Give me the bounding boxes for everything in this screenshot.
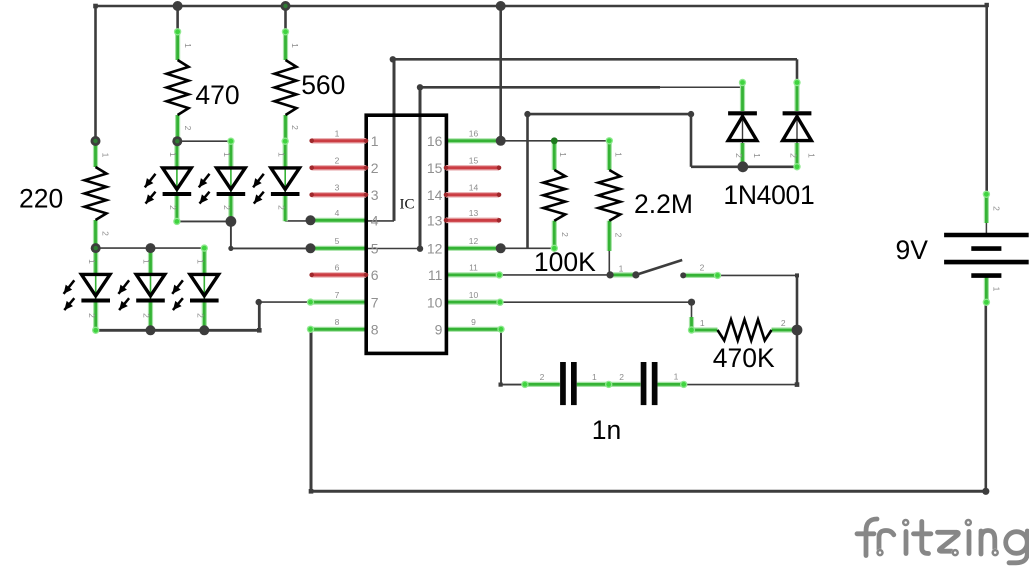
- svg-text:1: 1: [100, 153, 110, 158]
- svg-text:1N4001: 1N4001: [723, 180, 814, 210]
- svg-text:2: 2: [290, 125, 300, 130]
- svg-text:1: 1: [290, 43, 300, 48]
- svg-text:2: 2: [614, 233, 624, 238]
- svg-text:2: 2: [222, 205, 232, 210]
- svg-text:3: 3: [371, 187, 379, 203]
- svg-text:9: 9: [435, 322, 443, 338]
- svg-text:2: 2: [276, 205, 286, 210]
- svg-text:IC: IC: [400, 197, 415, 213]
- svg-text:2: 2: [991, 206, 1001, 211]
- svg-text:1: 1: [592, 372, 597, 382]
- svg-text:8: 8: [335, 317, 340, 327]
- svg-text:3: 3: [335, 183, 340, 193]
- svg-text:7: 7: [335, 290, 340, 300]
- svg-text:1: 1: [142, 259, 152, 264]
- svg-text:1: 1: [700, 318, 705, 328]
- svg-text:1: 1: [991, 287, 1001, 292]
- svg-text:1: 1: [674, 371, 679, 381]
- svg-text:2: 2: [168, 205, 178, 210]
- svg-text:16: 16: [427, 133, 443, 149]
- svg-text:10: 10: [427, 294, 443, 310]
- svg-text:2: 2: [142, 313, 152, 318]
- svg-text:9V: 9V: [896, 235, 929, 265]
- svg-text:1: 1: [558, 152, 568, 157]
- svg-text:1: 1: [87, 259, 97, 264]
- svg-text:2: 2: [619, 372, 624, 382]
- svg-text:2: 2: [335, 156, 340, 166]
- svg-text:4: 4: [335, 208, 340, 218]
- svg-text:100K: 100K: [534, 247, 596, 277]
- svg-text:560: 560: [301, 70, 345, 100]
- svg-text:1: 1: [196, 259, 206, 264]
- svg-text:470: 470: [195, 80, 239, 110]
- svg-text:1: 1: [807, 153, 817, 158]
- svg-text:2: 2: [540, 372, 545, 382]
- svg-text:1: 1: [335, 129, 340, 139]
- svg-text:16: 16: [469, 129, 479, 139]
- svg-text:2: 2: [734, 153, 744, 158]
- svg-text:1: 1: [371, 133, 379, 149]
- svg-text:8: 8: [371, 322, 379, 338]
- svg-text:12: 12: [427, 241, 443, 257]
- svg-text:2: 2: [781, 318, 786, 328]
- svg-text:14: 14: [427, 187, 443, 203]
- svg-text:7: 7: [371, 294, 379, 310]
- svg-text:1: 1: [276, 152, 286, 157]
- svg-text:2: 2: [100, 231, 110, 236]
- svg-text:2: 2: [700, 263, 705, 273]
- svg-text:2: 2: [183, 126, 193, 131]
- svg-text:15: 15: [427, 160, 443, 176]
- svg-text:10: 10: [469, 290, 479, 300]
- svg-text:1: 1: [168, 152, 178, 157]
- svg-text:5: 5: [335, 236, 340, 246]
- svg-text:11: 11: [428, 267, 443, 283]
- svg-text:6: 6: [335, 263, 340, 273]
- svg-text:13: 13: [469, 208, 479, 218]
- svg-text:12: 12: [469, 236, 479, 246]
- svg-text:2: 2: [87, 313, 97, 318]
- svg-text:1: 1: [614, 152, 624, 157]
- svg-text:2: 2: [371, 160, 379, 176]
- svg-text:11: 11: [469, 263, 478, 273]
- svg-text:1: 1: [222, 152, 232, 157]
- svg-text:9: 9: [471, 317, 476, 327]
- svg-text:4: 4: [371, 213, 379, 229]
- svg-text:2: 2: [789, 153, 799, 158]
- svg-text:2: 2: [196, 313, 206, 318]
- svg-text:220: 220: [19, 183, 63, 213]
- svg-text:13: 13: [427, 213, 443, 229]
- svg-text:2: 2: [560, 232, 570, 237]
- svg-text:1: 1: [752, 153, 762, 158]
- svg-text:1n: 1n: [592, 415, 621, 445]
- svg-text:15: 15: [469, 156, 479, 166]
- svg-text:5: 5: [371, 241, 379, 257]
- svg-text:6: 6: [371, 267, 379, 283]
- svg-text:470K: 470K: [713, 343, 775, 373]
- svg-text:14: 14: [469, 183, 479, 193]
- svg-text:2.2M: 2.2M: [634, 189, 693, 219]
- svg-text:1: 1: [619, 264, 624, 274]
- svg-text:1: 1: [183, 43, 193, 48]
